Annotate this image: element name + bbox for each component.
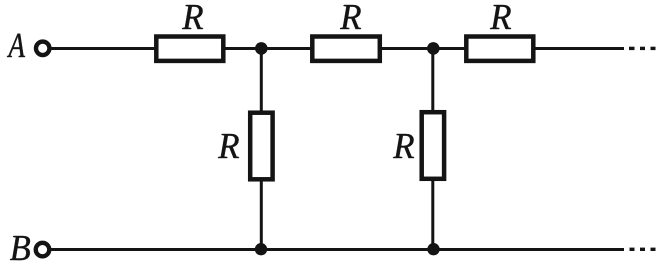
terminal A [36, 42, 50, 56]
wire A to R1 [51, 47, 156, 50]
node B label [10, 236, 30, 260]
node A label [7, 34, 25, 57]
ellipsis continuation bottom [630, 248, 656, 251]
label R (R3 value) [490, 5, 511, 29]
wire R1 to R2 [226, 47, 313, 50]
resistor R3 [466, 37, 533, 61]
wire B to right edge [51, 248, 624, 251]
label R (R2 value) [340, 5, 361, 29]
junction node bottom-1 [255, 243, 267, 255]
resistor R1 [156, 37, 223, 61]
wire R2 to R3 [382, 47, 466, 50]
wire R4 down to bottom node 1 [260, 180, 263, 250]
label R (R4 value) [218, 134, 239, 158]
resistor R2 [312, 37, 380, 61]
label R (R1 value) [182, 5, 203, 29]
ellipsis continuation top [629, 47, 656, 50]
terminal B [36, 243, 50, 257]
junction node top-1 [255, 42, 268, 55]
wire R5 down to bottom node 2 [431, 179, 434, 250]
resistor R4 (vertical) [250, 113, 272, 180]
label R (R5 value) [393, 134, 414, 158]
wire R3 to right edge [536, 47, 625, 50]
junction node top-2 [427, 42, 440, 55]
junction node bottom-2 [427, 243, 439, 255]
resistor R5 (vertical) [422, 112, 444, 179]
wire top node 1 down to R4 [260, 49, 263, 113]
wire top node 2 down to R5 [431, 49, 434, 113]
